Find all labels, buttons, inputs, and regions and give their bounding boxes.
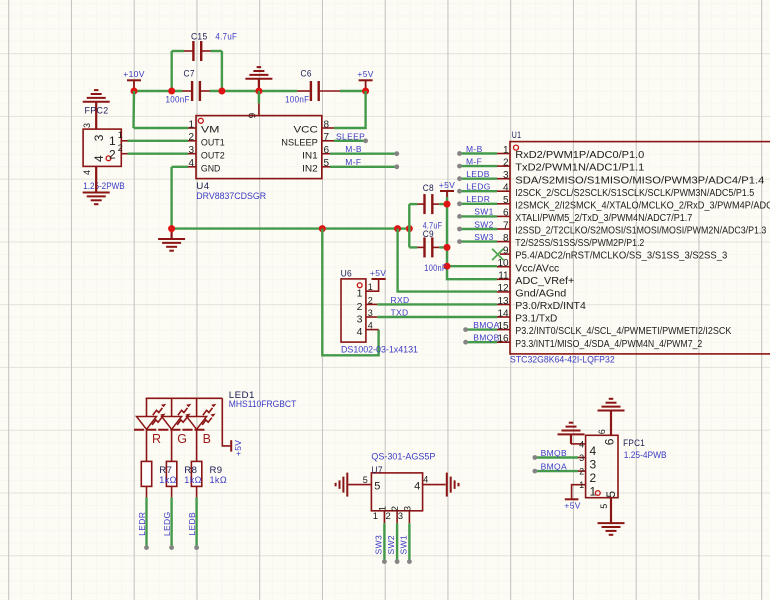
svg-text:M-F: M-F: [466, 156, 482, 166]
svg-text:LEDB: LEDB: [466, 169, 490, 179]
svg-text:3: 3: [92, 134, 106, 141]
svg-text:+5V: +5V: [564, 501, 580, 511]
svg-text:DS1002-03-1x4131: DS1002-03-1x4131: [341, 345, 418, 355]
svg-text:P3.2/INT0/SCLK_4/SCL_4/PWMETI/: P3.2/INT0/SCLK_4/SCL_4/PWMETI/PWMETI2/I2…: [515, 326, 731, 337]
svg-text:BMQB: BMQB: [541, 448, 567, 458]
svg-text:VCC: VCC: [294, 125, 318, 136]
svg-text:FPC1: FPC1: [623, 438, 645, 448]
svg-text:U4: U4: [196, 181, 209, 191]
svg-text:R7: R7: [159, 465, 172, 475]
svg-text:100nF: 100nF: [166, 94, 190, 104]
svg-text:2: 2: [118, 143, 123, 153]
svg-text:Vcc/AVcc: Vcc/AVcc: [515, 263, 559, 274]
svg-text:C15: C15: [191, 31, 208, 41]
svg-text:8: 8: [503, 233, 509, 244]
svg-text:5: 5: [599, 504, 609, 509]
svg-text:LEDR: LEDR: [137, 512, 147, 536]
svg-text:T2/S2SS/S1SS/SS/PWM2P/P1.2: T2/S2SS/S1SS/SS/PWM2P/P1.2: [515, 238, 644, 249]
svg-text:1.25-2PWB: 1.25-2PWB: [83, 181, 125, 191]
svg-text:1: 1: [590, 485, 597, 499]
svg-text:2: 2: [503, 157, 509, 168]
svg-text:4: 4: [188, 158, 194, 169]
svg-text:BMQA: BMQA: [541, 462, 567, 472]
svg-text:B: B: [203, 432, 211, 446]
svg-text:SW1: SW1: [398, 535, 408, 554]
svg-text:4: 4: [414, 480, 420, 492]
svg-text:GND: GND: [201, 163, 221, 174]
svg-text:1: 1: [368, 282, 373, 292]
svg-text:1: 1: [357, 288, 363, 300]
svg-text:P3.1/TxD: P3.1/TxD: [515, 314, 557, 325]
svg-text:5: 5: [324, 158, 330, 169]
svg-text:1: 1: [503, 145, 509, 156]
svg-text:4: 4: [579, 439, 584, 449]
svg-text:1kΩ: 1kΩ: [184, 475, 202, 485]
svg-text:BMQA: BMQA: [473, 320, 499, 330]
svg-text:+5V: +5V: [439, 180, 455, 190]
svg-text:IN2: IN2: [302, 163, 318, 174]
svg-text:5: 5: [363, 475, 368, 485]
svg-text:I2SMCK_2/I2SMCK_4/XTALO/MCLKO_: I2SMCK_2/I2SMCK_4/XTALO/MCLKO_2/RxD_3/PW…: [515, 200, 770, 211]
svg-text:LEDG: LEDG: [162, 512, 172, 537]
svg-text:1.25-4PWB: 1.25-4PWB: [624, 450, 667, 460]
svg-text:6: 6: [324, 145, 330, 156]
svg-text:OUT2: OUT2: [201, 150, 225, 161]
svg-text:R: R: [152, 432, 161, 446]
svg-text:M-B: M-B: [466, 144, 483, 154]
svg-text:IN1: IN1: [302, 150, 318, 161]
svg-text:11: 11: [498, 271, 509, 282]
svg-text:3: 3: [503, 170, 509, 181]
svg-text:1: 1: [188, 119, 194, 130]
svg-text:100nF: 100nF: [285, 94, 310, 104]
svg-text:3: 3: [590, 458, 597, 472]
svg-text:TxD2/PWM1N/ADC1/P1.1: TxD2/PWM1N/ADC1/P1.1: [515, 163, 644, 174]
svg-text:12: 12: [497, 283, 509, 294]
svg-text:+10V: +10V: [123, 69, 145, 79]
svg-text:U1: U1: [512, 130, 522, 140]
svg-text:R9: R9: [210, 465, 223, 475]
svg-text:3: 3: [82, 123, 92, 128]
svg-text:RXD: RXD: [391, 295, 410, 305]
svg-text:+5V: +5V: [370, 268, 386, 278]
svg-text:SW2: SW2: [474, 219, 493, 229]
svg-text:LEDR: LEDR: [466, 194, 490, 204]
svg-text:6: 6: [602, 438, 616, 445]
svg-text:I2SSD_2/T2CLKO/S2MOSI/S1MOSI/M: I2SSD_2/T2CLKO/S2MOSI/S1MOSI/MOSI/PWM2N/…: [515, 226, 766, 237]
svg-text:2: 2: [357, 301, 363, 313]
svg-text:2: 2: [109, 147, 116, 161]
svg-text:C8: C8: [423, 183, 434, 193]
svg-text:3: 3: [398, 511, 403, 522]
svg-text:SW3: SW3: [474, 232, 493, 242]
svg-text:U7: U7: [371, 465, 383, 475]
svg-text:SDA/S2MISO/S1MISO/MISO/PWM3P/A: SDA/S2MISO/S1MISO/MISO/PWM3P/ADC4/P1.4: [515, 175, 765, 186]
svg-text:2: 2: [579, 467, 584, 477]
svg-text:P3.0/RxD/INT4: P3.0/RxD/INT4: [515, 301, 586, 312]
svg-text:+5V: +5V: [233, 440, 243, 456]
svg-text:1: 1: [109, 134, 116, 148]
svg-text:3: 3: [357, 314, 363, 326]
svg-text:RxD2/PWM1P/ADC0/P1.0: RxD2/PWM1P/ADC0/P1.0: [515, 150, 645, 161]
svg-text:DRV8837CDSGR: DRV8837CDSGR: [196, 191, 266, 201]
svg-text:4: 4: [368, 321, 373, 331]
svg-text:1: 1: [373, 511, 378, 522]
svg-text:SLEEP: SLEEP: [336, 131, 365, 141]
svg-text:1kΩ: 1kΩ: [159, 475, 177, 485]
svg-text:3: 3: [403, 506, 414, 511]
svg-text:8: 8: [324, 119, 330, 130]
svg-text:LEDG: LEDG: [466, 182, 491, 192]
svg-text:XTALI/PWM5_2/TxD_3/PWM4N/ADC7/: XTALI/PWM5_2/TxD_3/PWM4N/ADC7/P1.7: [515, 213, 692, 224]
svg-text:3: 3: [188, 145, 194, 156]
svg-text:5: 5: [374, 480, 380, 492]
svg-text:4: 4: [423, 475, 428, 485]
svg-text:OUT1: OUT1: [201, 137, 225, 148]
svg-text:+5V: +5V: [357, 69, 373, 79]
svg-text:M-F: M-F: [345, 157, 361, 167]
svg-text:NSLEEP: NSLEEP: [281, 137, 318, 148]
svg-text:STC32G8K64-42I-LQFP32: STC32G8K64-42I-LQFP32: [510, 355, 615, 365]
svg-text:C9: C9: [423, 229, 434, 239]
svg-text:G: G: [177, 432, 187, 446]
svg-text:4: 4: [590, 444, 597, 458]
svg-text:1: 1: [118, 130, 123, 140]
svg-text:LEDB: LEDB: [187, 512, 197, 536]
svg-text:C7: C7: [184, 69, 195, 79]
svg-text:4: 4: [92, 155, 106, 162]
svg-text:10: 10: [497, 258, 509, 269]
svg-text:14: 14: [497, 308, 509, 319]
svg-text:SW2: SW2: [386, 535, 396, 554]
svg-text:SW3: SW3: [373, 535, 383, 554]
svg-text:P5.4/ADC2/nRST/MCLKO/SS_3/S1SS: P5.4/ADC2/nRST/MCLKO/SS_3/S1SS_3/S2SS_3: [515, 251, 728, 262]
svg-text:I2SCK_2/SCL/S2SCLK/S1SCLK/SCLK: I2SCK_2/SCL/S2SCLK/S1SCLK/SCLK/PWM3N/ADC…: [515, 188, 754, 199]
svg-text:100nF: 100nF: [424, 263, 447, 273]
svg-text:C6: C6: [301, 69, 312, 79]
svg-text:Gnd/AGnd: Gnd/AGnd: [515, 289, 566, 300]
svg-text:BMQB: BMQB: [473, 333, 499, 343]
svg-text:2: 2: [188, 132, 194, 143]
svg-text:2: 2: [386, 511, 391, 522]
svg-text:QS-301-AGS5P: QS-301-AGS5P: [371, 451, 435, 461]
svg-text:2: 2: [590, 471, 597, 485]
svg-text:6: 6: [597, 429, 607, 434]
svg-text:TXD: TXD: [391, 308, 409, 318]
svg-text:1: 1: [579, 480, 584, 490]
svg-text:5: 5: [503, 195, 509, 206]
svg-text:MHS110FRGBCT: MHS110FRGBCT: [229, 399, 297, 409]
svg-text:1kΩ: 1kΩ: [210, 475, 228, 485]
svg-text:9: 9: [503, 245, 509, 256]
svg-text:7: 7: [503, 220, 509, 231]
svg-text:3: 3: [368, 308, 373, 318]
svg-text:4: 4: [503, 183, 509, 194]
svg-text:ADC_VRef+: ADC_VRef+: [515, 276, 574, 287]
svg-text:2: 2: [368, 295, 373, 305]
svg-text:VM: VM: [201, 125, 220, 136]
svg-text:7: 7: [324, 132, 330, 143]
svg-text:R8: R8: [184, 465, 197, 475]
svg-text:4.7uF: 4.7uF: [215, 31, 237, 41]
svg-text:5: 5: [604, 491, 618, 498]
svg-text:3: 3: [579, 453, 584, 463]
svg-text:4: 4: [82, 170, 92, 175]
svg-text:SW1: SW1: [474, 207, 493, 217]
svg-text:P3.3/INT1/MISO_4/SDA_4/PWM4N_4: P3.3/INT1/MISO_4/SDA_4/PWM4N_4/PWM7_2: [515, 339, 702, 350]
svg-text:U6: U6: [341, 269, 353, 279]
svg-text:13: 13: [497, 296, 509, 307]
svg-text:M-B: M-B: [345, 144, 362, 154]
svg-text:6: 6: [503, 208, 509, 219]
svg-text:4: 4: [357, 326, 363, 338]
svg-text:FPC2: FPC2: [85, 106, 109, 116]
